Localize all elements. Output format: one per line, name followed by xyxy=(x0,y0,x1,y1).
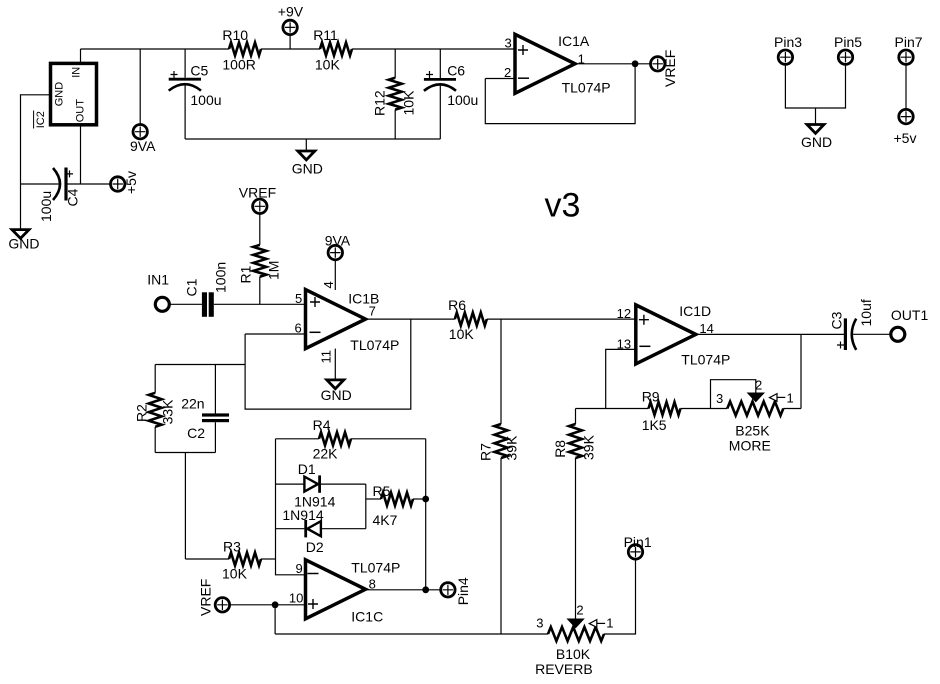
wire feedback right vertical xyxy=(425,439,427,590)
svg-text:Pin3: Pin3 xyxy=(774,34,802,50)
power symbol VREF (pin10) xyxy=(198,579,230,616)
wire rail R11 to IC1A pin3 xyxy=(352,48,515,50)
svg-text:R3: R3 xyxy=(223,538,241,554)
svg-text:+5v: +5v xyxy=(894,130,917,146)
power symbol +5v xyxy=(111,171,140,194)
svg-text:39K: 39K xyxy=(504,435,520,461)
svg-text:10uf: 10uf xyxy=(858,299,874,326)
svg-text:C2: C2 xyxy=(187,425,205,441)
power symbol +9V xyxy=(278,3,304,49)
wire diode right vertical xyxy=(365,484,367,529)
wire B25K to output drop xyxy=(783,408,801,410)
wire IC1A output xyxy=(575,63,651,65)
IC1D plus sign xyxy=(639,315,649,325)
svg-text:4: 4 xyxy=(321,281,336,288)
IC1C plus sign xyxy=(308,599,318,609)
power symbol 9VA (IC1B) xyxy=(325,233,351,260)
wire IC1D output to C3 xyxy=(696,333,844,335)
svg-text:100u: 100u xyxy=(190,92,221,108)
capacitor C5 xyxy=(169,49,222,139)
svg-text:2: 2 xyxy=(504,65,511,80)
resistor R7 xyxy=(478,319,520,634)
connector OUT1 xyxy=(891,307,929,342)
svg-text:VREF: VREF xyxy=(662,50,678,87)
power symbol 9VA xyxy=(130,125,156,155)
svg-text:Pin5: Pin5 xyxy=(834,34,862,50)
svg-text:R8: R8 xyxy=(552,440,568,458)
svg-text:Pin1: Pin1 xyxy=(624,534,652,550)
wire Pin7 to +5v xyxy=(905,64,907,109)
wire R5 left stub xyxy=(366,498,381,500)
IC1A plus sign xyxy=(518,45,528,55)
svg-text:IC1A: IC1A xyxy=(558,33,590,49)
wire C4 to +5v circle xyxy=(68,183,110,185)
wire +5v node left segment xyxy=(21,183,59,185)
power symbol +5v (pin7) xyxy=(894,109,917,146)
svg-text:IC1C: IC1C xyxy=(351,608,383,624)
wire bottom rail xyxy=(275,633,548,635)
svg-text:3: 3 xyxy=(536,615,543,630)
capacitor C2 xyxy=(181,365,229,453)
wire R6 to IC1D pin12 xyxy=(487,318,636,320)
wire IC1B pin6 input xyxy=(245,333,305,335)
svg-text:C4: C4 xyxy=(65,188,81,206)
svg-text:VREF: VREF xyxy=(198,579,214,616)
pin symbol Pin3 xyxy=(774,34,802,64)
wire IC1B pin11 gnd stub xyxy=(334,349,336,379)
svg-text:R6: R6 xyxy=(448,297,466,313)
svg-text:12: 12 xyxy=(617,306,631,321)
wire R4 right xyxy=(351,438,426,440)
svg-text:10K: 10K xyxy=(449,326,475,342)
resistor R3 xyxy=(222,538,261,581)
svg-text:R10: R10 xyxy=(222,27,248,43)
svg-text:D2: D2 xyxy=(306,539,324,555)
svg-text:3: 3 xyxy=(505,36,512,51)
svg-text:R1: R1 xyxy=(238,265,254,283)
svg-text:100R: 100R xyxy=(222,56,255,72)
junction dot IC1C output xyxy=(422,586,429,593)
svg-text:1N914: 1N914 xyxy=(282,507,323,523)
svg-text:10K: 10K xyxy=(222,566,248,582)
svg-text:1: 1 xyxy=(787,390,794,405)
svg-text:TL074P: TL074P xyxy=(351,559,400,575)
resistor R4 xyxy=(313,417,351,462)
op-amp IC1B xyxy=(306,290,366,349)
wire pin10 drop to bottom rail xyxy=(274,605,276,634)
wire VREF to pin10 xyxy=(230,604,306,606)
IC1B plus sign xyxy=(310,297,320,307)
junction dot R5 xyxy=(422,496,429,503)
svg-text:R12: R12 xyxy=(372,90,388,116)
resistor R1 xyxy=(238,214,282,305)
svg-text:IC1D: IC1D xyxy=(679,303,711,319)
svg-text:Pin4: Pin4 xyxy=(455,577,471,605)
wire C1 to IC1B pin5 xyxy=(214,303,306,305)
wire IC1A feedback loop xyxy=(485,64,635,124)
svg-text:+5v: +5v xyxy=(123,171,139,194)
resistor R12 xyxy=(372,49,417,139)
svg-text:4K7: 4K7 xyxy=(373,512,398,528)
svg-text:1M: 1M xyxy=(266,261,282,280)
wire top rail segment IN to R10 xyxy=(81,48,230,50)
svg-text:Pin7: Pin7 xyxy=(895,34,923,50)
svg-text:22n: 22n xyxy=(181,396,204,412)
IC1D minus sign xyxy=(639,345,650,347)
svg-text:2: 2 xyxy=(755,378,762,393)
svg-text:11: 11 xyxy=(319,350,334,364)
svg-text:R9: R9 xyxy=(642,388,660,404)
IC1B minus sign xyxy=(310,331,321,333)
svg-text:R7: R7 xyxy=(478,443,494,461)
svg-text:10: 10 xyxy=(289,590,303,605)
resistor R8 xyxy=(552,409,597,620)
svg-text:TL074P: TL074P xyxy=(350,337,399,353)
svg-text:R5: R5 xyxy=(373,483,391,499)
wire R3 right xyxy=(261,558,276,560)
diode D2 xyxy=(276,520,366,555)
op-amp IC1A xyxy=(515,34,575,93)
wire R9 to B25K xyxy=(681,408,728,410)
wire R2C2 bottom xyxy=(155,452,215,454)
svg-text:100u: 100u xyxy=(38,191,54,222)
wire gnd stub pins xyxy=(815,108,817,124)
resistor R2 xyxy=(134,365,176,453)
wire IC2 GND pin to left xyxy=(21,95,51,229)
pin symbol Pin7 xyxy=(895,34,923,64)
svg-text:R11: R11 xyxy=(313,27,338,43)
wire IN1 to C1 xyxy=(170,303,202,305)
connector IN1 xyxy=(147,271,169,311)
svg-text:REVERB: REVERB xyxy=(535,661,593,677)
svg-text:R4: R4 xyxy=(313,417,331,433)
wire drop to R3 xyxy=(184,453,186,560)
svg-text:3: 3 xyxy=(716,391,723,406)
wire 9VA stub xyxy=(139,49,141,125)
wire Pin3/Pin5 to gnd xyxy=(785,64,845,108)
svg-text:33K: 33K xyxy=(160,399,176,425)
svg-text:C3: C3 xyxy=(829,311,845,329)
resistor R10 xyxy=(222,27,261,72)
wire R4 left xyxy=(276,438,320,440)
potentiometer B10K xyxy=(535,602,613,677)
svg-text:GND: GND xyxy=(801,134,832,150)
capacitor C3 xyxy=(829,299,875,350)
svg-text:GND: GND xyxy=(54,82,66,107)
wire IC1B output to R6 xyxy=(366,318,455,320)
svg-text:GND: GND xyxy=(321,387,352,403)
svg-text:6: 6 xyxy=(295,320,302,335)
op-amp IC1C xyxy=(306,560,366,619)
svg-text:GND: GND xyxy=(8,236,39,252)
op-amp IC1D xyxy=(636,305,696,364)
svg-text:9: 9 xyxy=(296,561,303,576)
pin symbol Pin5 xyxy=(834,34,862,64)
svg-text:GND: GND xyxy=(292,161,323,177)
svg-text:B25K: B25K xyxy=(735,422,770,438)
capacitor C6 xyxy=(424,49,478,139)
svg-text:100n: 100n xyxy=(213,262,229,293)
ground symbol pins xyxy=(801,125,832,151)
resistor R5 xyxy=(373,483,414,528)
pin symbol Pin1 xyxy=(624,534,652,559)
wire R5 right stub xyxy=(413,498,426,500)
IC1A minus sign xyxy=(518,77,529,79)
svg-text:IN1: IN1 xyxy=(147,271,169,287)
svg-text:100u: 100u xyxy=(447,92,478,108)
svg-text:+9V: +9V xyxy=(278,3,304,19)
ground symbol bottom-left xyxy=(8,230,39,252)
IC2 refdes underline xyxy=(33,111,35,129)
svg-text:1K5: 1K5 xyxy=(642,417,667,433)
wire IC1C output xyxy=(366,589,441,591)
svg-text:39K: 39K xyxy=(581,434,597,460)
svg-text:OUT1: OUT1 xyxy=(891,307,929,323)
IC1C minus sign xyxy=(308,573,319,575)
power symbol VREF (R1 top) xyxy=(239,185,276,214)
wire C3 to OUT1 xyxy=(852,333,891,335)
capacitor C4 xyxy=(38,168,81,223)
wire B10K to Pin1 xyxy=(604,559,636,634)
svg-text:B10K: B10K xyxy=(556,646,591,662)
power symbol VREF (IC1A out) xyxy=(651,50,679,87)
capacitor C1 xyxy=(184,262,229,317)
wire IC2 IN drop xyxy=(80,49,82,63)
resistor R6 xyxy=(448,297,487,342)
wire rail R10 to R11 xyxy=(261,48,320,50)
svg-text:C6: C6 xyxy=(447,63,465,79)
svg-text:OUT: OUT xyxy=(74,99,86,123)
svg-text:C5: C5 xyxy=(190,63,208,79)
svg-text:9VA: 9VA xyxy=(130,138,156,154)
svg-text:R2: R2 xyxy=(134,404,150,422)
svg-text:5: 5 xyxy=(295,291,302,306)
svg-text:14: 14 xyxy=(699,321,713,336)
svg-text:22K: 22K xyxy=(313,446,339,462)
wire summing left vertical xyxy=(276,439,306,575)
wire gnd stub filter xyxy=(305,139,307,150)
wire IC1B feedback loop xyxy=(245,319,411,409)
wire IC2 OUT drop xyxy=(80,125,82,184)
wire bottom rail of filter xyxy=(185,138,440,140)
svg-text:IC2: IC2 xyxy=(35,111,47,128)
resistor R9 xyxy=(642,388,681,433)
svg-text:10K: 10K xyxy=(401,90,417,116)
wire output drop to B25K xyxy=(800,334,802,408)
svg-text:2: 2 xyxy=(576,602,583,617)
svg-text:C1: C1 xyxy=(184,278,200,296)
junction dot IC1A output xyxy=(632,60,639,67)
svg-text:IN: IN xyxy=(71,67,83,78)
pin symbol Pin4 xyxy=(441,577,471,605)
ground symbol filter xyxy=(292,151,323,177)
svg-text:MORE: MORE xyxy=(729,438,771,454)
wire IC1D pin13 xyxy=(606,349,636,408)
wire IC1A pin2 input xyxy=(485,78,515,80)
svg-text:10K: 10K xyxy=(315,56,341,72)
svg-text:TL074P: TL074P xyxy=(681,351,730,367)
svg-text:1: 1 xyxy=(606,615,613,630)
wire R3 left xyxy=(185,558,229,560)
diode D1 xyxy=(276,461,366,510)
wire R8 top to R9 xyxy=(576,408,649,410)
ground symbol IC1B xyxy=(321,380,352,403)
wire R2C2 top xyxy=(155,364,245,366)
regulator IC2 box xyxy=(51,63,97,124)
junction dot pin10 xyxy=(272,601,279,608)
svg-text:TL074P: TL074P xyxy=(562,79,611,95)
svg-text:IC1B: IC1B xyxy=(348,290,379,306)
svg-text:D1: D1 xyxy=(298,461,316,477)
resistor R11 xyxy=(313,27,352,72)
potentiometer B25K xyxy=(711,378,794,454)
svg-text:v3: v3 xyxy=(545,187,581,225)
wire 9VA to IC1B pin4 xyxy=(334,260,336,290)
